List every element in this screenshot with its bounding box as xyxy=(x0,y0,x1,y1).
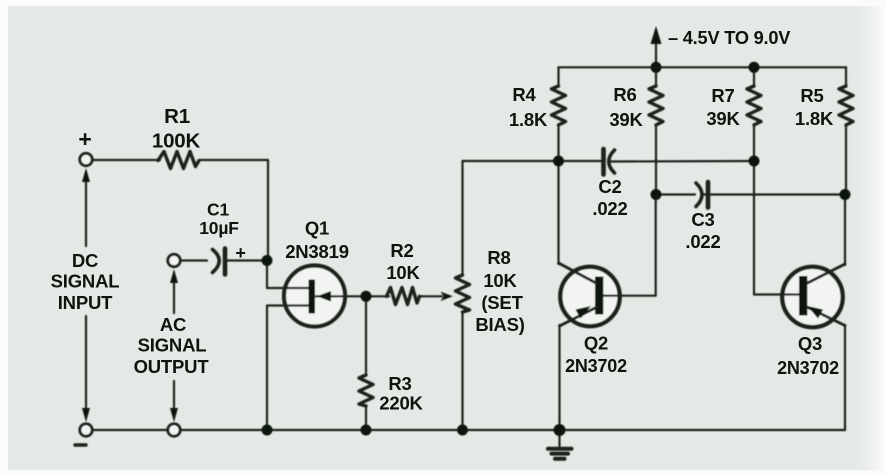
potentiometer R8 xyxy=(456,161,470,430)
arrow: AC output span xyxy=(170,269,178,422)
terminal circle: DC + input xyxy=(80,153,92,165)
svg-text:+: + xyxy=(235,243,245,263)
svg-text:R1: R1 xyxy=(164,105,190,128)
svg-text:DC: DC xyxy=(72,250,98,271)
svg-text:BIAS): BIAS) xyxy=(475,314,524,335)
svg-text:INPUT: INPUT xyxy=(58,292,113,313)
arrow: DC input span xyxy=(82,168,90,422)
svg-text:R7: R7 xyxy=(711,85,734,106)
svg-text:R8: R8 xyxy=(487,247,510,268)
terminal circle: DC - input (bottom left) xyxy=(80,424,92,436)
junction node: R3/rail xyxy=(361,425,372,436)
wire: R1 to corner down to C1 junction xyxy=(200,160,268,261)
svg-text:10K: 10K xyxy=(386,262,420,283)
svg-text:C1: C1 xyxy=(207,200,229,220)
wire: R2 to R8 wiper arrow xyxy=(420,295,442,297)
svg-text:SIGNAL: SIGNAL xyxy=(138,335,207,356)
svg-text:.022: .022 xyxy=(592,198,627,219)
junction node: gate/R2/R3 xyxy=(361,291,372,302)
ground symbol xyxy=(548,430,572,459)
resistor R1 xyxy=(158,152,199,169)
svg-text:(SET: (SET xyxy=(481,292,523,313)
resistor R7 xyxy=(747,67,761,294)
junction node: supply/R7 xyxy=(749,62,760,73)
svg-text:SIGNAL: SIGNAL xyxy=(51,271,120,292)
svg-text:2N3819: 2N3819 xyxy=(285,241,349,262)
resistor R2 xyxy=(387,288,420,305)
svg-text:220K: 220K xyxy=(379,393,423,414)
svg-text:100K: 100K xyxy=(152,130,201,153)
resistor R6 xyxy=(649,67,663,194)
minus label line xyxy=(75,443,86,446)
bottom ground rail xyxy=(93,429,846,431)
resistor R5 xyxy=(839,67,853,195)
resistor R3 xyxy=(359,297,373,430)
junction node: R5/line2 xyxy=(840,189,851,200)
wire: C1 to junction xyxy=(227,259,266,261)
resistor R4 xyxy=(552,67,566,161)
transistor Q2 (2N3702) xyxy=(559,161,656,429)
svg-text:R4: R4 xyxy=(512,84,536,105)
capacitor C3 xyxy=(696,182,708,208)
power supply arrow xyxy=(651,26,662,67)
svg-text:2N3702: 2N3702 xyxy=(777,358,839,378)
svg-text:C2: C2 xyxy=(598,176,621,197)
svg-text:R5: R5 xyxy=(800,85,823,106)
transistor Q3 (2N3702) xyxy=(754,195,845,431)
svg-text:C3: C3 xyxy=(691,209,714,230)
wire: AC terminal to C1 xyxy=(181,259,207,261)
svg-text:10K: 10K xyxy=(483,270,517,291)
svg-text:– 4.5V TO 9.0V: – 4.5V TO 9.0V xyxy=(668,28,790,48)
junction node: Q1 source/rail xyxy=(262,425,273,436)
junction node: ground/rail xyxy=(554,424,566,436)
svg-text:R6: R6 xyxy=(613,84,636,105)
junction node: C1/R1/Q1 drain xyxy=(262,255,273,266)
svg-text:Q2: Q2 xyxy=(584,333,608,354)
svg-text:+: + xyxy=(78,126,91,152)
junction node: R7/line1 xyxy=(749,156,760,167)
junction node: R6/line2 xyxy=(651,189,662,200)
top supply rail xyxy=(559,66,847,68)
wire: + terminal to R1 xyxy=(93,159,160,161)
capacitor C2 xyxy=(604,149,615,175)
terminal circle: AC output top xyxy=(168,254,180,266)
svg-text:R3: R3 xyxy=(388,373,411,394)
capacitor C1 xyxy=(213,249,226,275)
svg-text:10µF: 10µF xyxy=(199,218,239,238)
svg-text:39K: 39K xyxy=(706,108,740,129)
svg-text:39K: 39K xyxy=(609,109,643,130)
svg-text:1.8K: 1.8K xyxy=(795,108,834,129)
svg-text:Q3: Q3 xyxy=(798,333,822,354)
svg-text:AC: AC xyxy=(160,314,186,335)
junction node: supply/R6 xyxy=(651,62,662,73)
svg-text:R2: R2 xyxy=(390,240,413,261)
coupling line R8/R4 to R7 (line1) xyxy=(463,160,755,163)
terminal circle: AC output bottom xyxy=(168,424,180,436)
svg-text:Q1: Q1 xyxy=(305,218,329,239)
junction node: R8/rail xyxy=(457,425,468,436)
svg-text:1.8K: 1.8K xyxy=(509,109,548,130)
coupling line R6 to R5 (line2) xyxy=(656,193,845,195)
transistor Q1 (2N3819 JFET) xyxy=(267,263,366,430)
svg-text:2N3702: 2N3702 xyxy=(565,356,627,376)
wire: gate to R2 xyxy=(366,295,389,297)
junction node: R4/line1 xyxy=(553,156,564,167)
svg-text:OUTPUT: OUTPUT xyxy=(134,356,210,377)
svg-text:.022: .022 xyxy=(685,231,720,252)
